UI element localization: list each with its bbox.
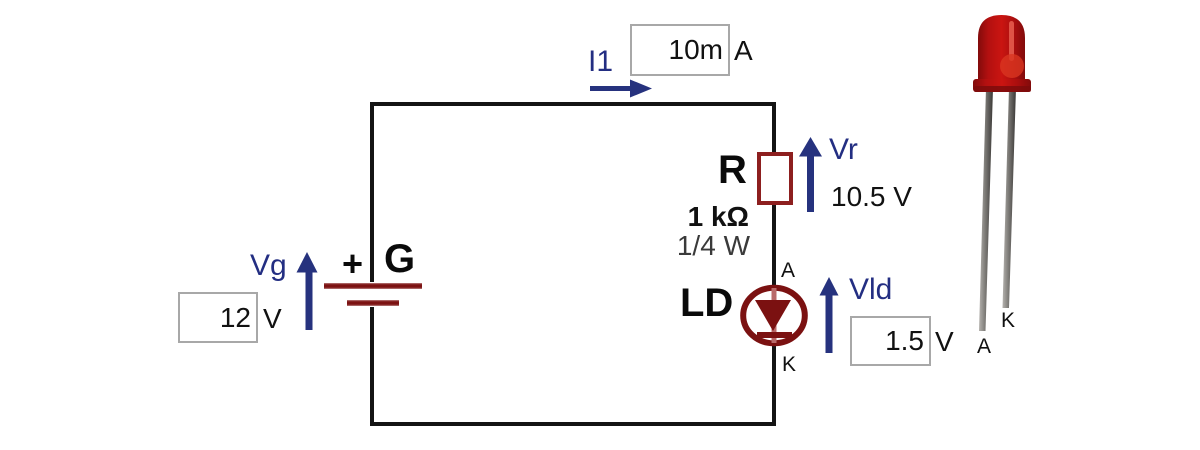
LED photo: flange xyxy=(973,79,1031,92)
value 1 kOhm xyxy=(649,201,749,233)
LED symbol LD: circle ring xyxy=(743,288,805,344)
LED symbol: inner vertical lead line xyxy=(772,288,777,343)
label I1 xyxy=(588,45,613,79)
LED photo: body dome xyxy=(978,15,1025,80)
node gap for battery on left wire xyxy=(367,282,379,307)
LED symbol: diode triangle xyxy=(755,300,791,331)
label Vg xyxy=(250,249,287,283)
unit V (led) xyxy=(935,326,954,358)
value box 12 xyxy=(178,292,258,343)
value box 1.5 xyxy=(850,316,931,366)
unit A (current) xyxy=(734,35,753,67)
LED symbol: cathode bar xyxy=(757,332,792,338)
LED photo: inner reflection xyxy=(1000,54,1024,78)
battery plus xyxy=(342,243,363,285)
label LD xyxy=(680,281,733,326)
node K (diode cathode) xyxy=(782,353,796,377)
arrow Vg (up) xyxy=(306,268,313,330)
LED photo: highlight streak xyxy=(1009,21,1014,61)
arrow Vr (up) xyxy=(807,152,814,212)
LED photo: anode leg (long, left) xyxy=(979,88,993,331)
LED photo anode label A xyxy=(977,335,991,359)
node A (diode anode) xyxy=(781,259,795,283)
value 10.5 V xyxy=(831,181,912,213)
battery G: short negative plate xyxy=(347,300,399,306)
wire: main circuit loop rectangle xyxy=(370,102,776,426)
label Vld xyxy=(849,273,892,307)
label G xyxy=(384,237,415,282)
arrow Vld (up) xyxy=(826,291,833,353)
arrow I1 (current, pointing right) xyxy=(590,86,632,91)
label R xyxy=(718,148,747,193)
label Vr xyxy=(829,133,858,167)
unit V (source) xyxy=(263,303,282,335)
LED photo: cathode leg (short, right) xyxy=(1003,88,1017,308)
value 1/4 W xyxy=(650,230,750,262)
LED photo cathode label K xyxy=(1001,309,1015,333)
resistor R body xyxy=(757,152,793,205)
battery G: long positive plate xyxy=(324,283,422,289)
value box 10m xyxy=(630,24,730,76)
